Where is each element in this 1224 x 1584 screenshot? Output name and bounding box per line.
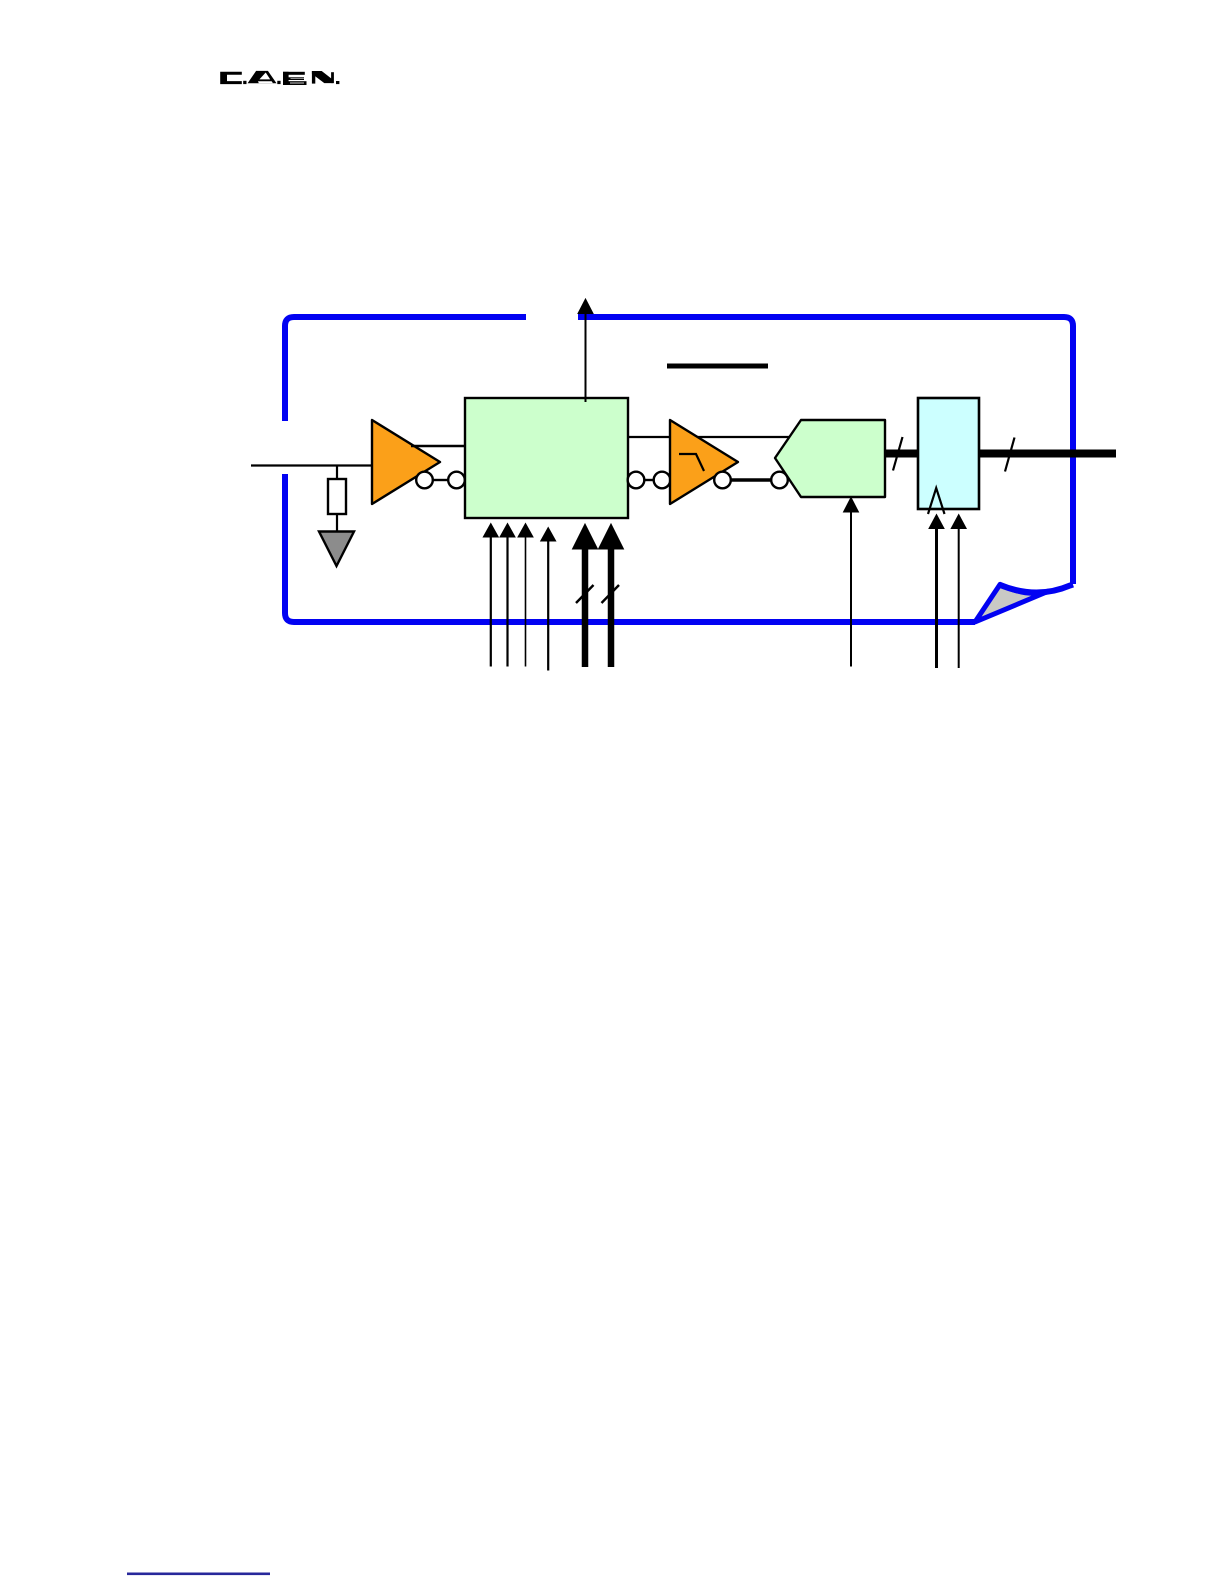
test point bubble 3 xyxy=(628,472,645,489)
wire between test points xyxy=(433,479,448,481)
slash on bus arrow 5 xyxy=(576,585,594,603)
test point bubble 2 xyxy=(448,472,465,489)
wire amp to delay block xyxy=(411,445,465,447)
bus slash 2 xyxy=(1005,438,1015,472)
control bus arrow 6 xyxy=(608,548,615,667)
arrow into pentagon xyxy=(850,511,852,667)
test point bubble 6 xyxy=(771,472,788,489)
output bus xyxy=(979,450,1116,458)
test point bubble 1 xyxy=(416,472,433,489)
delay block xyxy=(465,398,628,518)
control arrow 4 xyxy=(547,540,549,671)
page curl fold xyxy=(975,585,1049,623)
wire branch to terminator xyxy=(336,466,338,482)
bus pentagon to register xyxy=(885,450,918,458)
clock arrow thin xyxy=(958,528,960,668)
input wire xyxy=(251,464,372,466)
blue frame top-right segment xyxy=(578,317,1073,584)
slash on bus arrow 6 xyxy=(602,585,620,603)
control arrow 2 xyxy=(506,536,508,667)
ground xyxy=(319,532,354,567)
bus slash 1 xyxy=(893,437,903,471)
threshold symbol xyxy=(679,454,704,471)
arrowhead up xyxy=(578,299,593,314)
clock arrow thick xyxy=(935,528,938,668)
control arrow 1 xyxy=(490,536,492,667)
clock wedge xyxy=(928,488,945,514)
wire up from delay block xyxy=(585,314,587,402)
footnote separator xyxy=(127,1573,270,1576)
control arrow 3 xyxy=(525,536,527,667)
wire resistor to ground xyxy=(336,514,338,533)
wire bubble5 to bubble6 xyxy=(731,478,771,482)
test point bubble 5 xyxy=(714,472,731,489)
test point bubble 4 xyxy=(654,472,671,489)
output register xyxy=(918,398,979,509)
blue frame left+bottom segment xyxy=(285,474,975,622)
black label bar xyxy=(667,364,768,369)
amplifier A1 xyxy=(372,420,440,504)
blue frame left-top segment xyxy=(285,317,526,421)
control bus arrow 5 xyxy=(582,548,589,667)
page curl outer curve xyxy=(999,585,1073,593)
wire between test points 2 xyxy=(644,479,654,481)
wire delay block to pentagon (behind) xyxy=(628,436,790,438)
pattern unit pentagon xyxy=(775,420,885,497)
resistor termination xyxy=(328,479,346,514)
CAEN logo xyxy=(220,71,339,85)
discriminator A2 xyxy=(670,420,738,504)
